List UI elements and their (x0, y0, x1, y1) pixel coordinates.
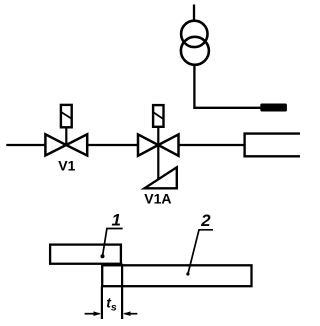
svg-text:V1: V1 (58, 157, 75, 173)
flow meter lower circle (181, 37, 209, 65)
rect 2 (signal bar 2) (102, 265, 251, 286)
rect 1 (signal bar 1) (50, 245, 121, 264)
actuator (solenoid) of V1A (153, 105, 163, 144)
extension line right (121, 264, 123, 319)
wire to burner box (179, 144, 245, 146)
svg-text:1: 1 (111, 211, 120, 230)
svg-text:2: 2 (200, 211, 211, 230)
terminal block (filled) (260, 104, 287, 112)
svg-text:V1A: V1A (144, 191, 171, 207)
dimension line right part (125, 313, 138, 315)
valve V1 body (45, 134, 87, 155)
dimension arrow left (94, 311, 102, 316)
wire between valves (87, 144, 138, 146)
wire pipe left (6, 144, 45, 146)
stem below V1A (157, 146, 159, 179)
dimension line left part (85, 313, 100, 315)
extension line left (101, 287, 103, 320)
label 1 with leader (101, 211, 123, 259)
dimension arrow right (123, 311, 131, 316)
safety shut-off triangle of V1A (145, 167, 177, 188)
wire top stub (193, 5, 195, 22)
burner box (open right side) (245, 134, 300, 157)
flow meter upper circle (181, 21, 207, 47)
valve V1A body (138, 134, 179, 155)
label 2 with leader (186, 211, 213, 276)
wire meter to terminal (194, 65, 260, 108)
actuator (solenoid) of V1 (61, 105, 72, 144)
